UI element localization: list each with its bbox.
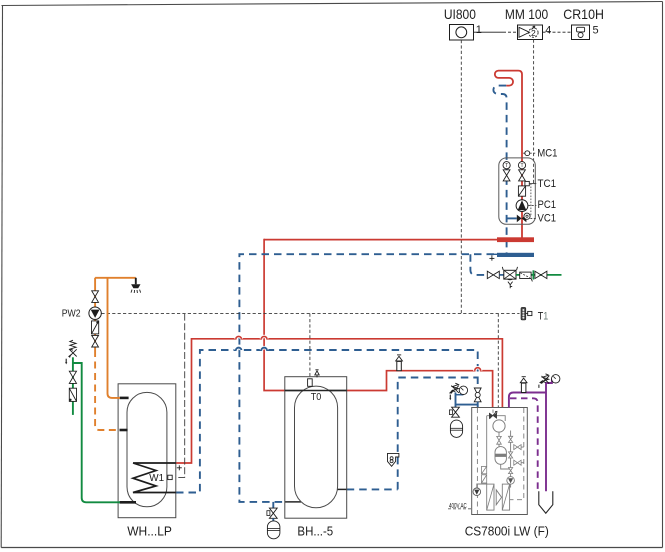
wire red buffer tank to heat pump inlet — [347, 368, 493, 408]
heat exchanger coil W — [133, 463, 176, 493]
sensor TC1 — [525, 181, 536, 185]
wire circulation riser solid part — [94, 278, 96, 350]
shutoff valve on heat pump return — [474, 388, 481, 402]
wire green fill pipe — [516, 274, 562, 276]
backflow preventer box — [502, 267, 517, 288]
evaporator fan pump — [473, 488, 481, 496]
svg-text:UI800: UI800 — [444, 6, 476, 22]
pump PC1 — [516, 200, 536, 212]
union fitting — [532, 270, 534, 279]
internal valve middle — [509, 452, 513, 458]
strainer — [520, 272, 533, 281]
filter dryer upper — [482, 466, 487, 473]
wire DHW outlet pipe orange — [108, 278, 121, 398]
internal tap right lower — [514, 460, 521, 465]
wire return stub to VC1 — [507, 217, 517, 219]
svg-text:WH...LP: WH...LP — [127, 523, 172, 538]
controller U1 UI800 box — [450, 25, 474, 41]
shutoff valve cold water — [69, 371, 76, 383]
heat exchanger plate left — [487, 484, 494, 510]
wire cold water mains riser — [72, 357, 74, 415]
check valve cold water — [69, 388, 76, 401]
internal valve lower — [509, 468, 513, 474]
shutoff valve above PW2 — [92, 291, 99, 303]
cap valve above expansion vessel — [449, 407, 459, 417]
svg-text:MC1: MC1 — [537, 147, 557, 159]
shutoff valve fill right — [535, 271, 547, 278]
safety valve heat pump discharge — [539, 374, 549, 388]
tank top port line redraw — [285, 390, 347, 392]
expansion vessel buffer circuit — [267, 521, 280, 539]
page frame right edge — [662, 2, 664, 548]
svg-text:VC1: VC1 — [538, 213, 557, 225]
internal valve top — [509, 436, 513, 442]
wire blue return buffer to heat pump branch — [347, 378, 478, 490]
svg-text:CR10H: CR10H — [563, 6, 604, 22]
cap valve expansion vessel — [267, 508, 277, 521]
manifold supply bar — [497, 237, 534, 242]
wire control bus horizontal — [101, 313, 519, 315]
thermometer on return — [503, 162, 510, 170]
tank WH...LP vessel — [127, 392, 167, 506]
module U2 MM 100 box — [518, 25, 543, 40]
port nipple circulation — [120, 429, 128, 432]
svg-text:1: 1 — [476, 24, 482, 36]
internal circulation pump — [507, 477, 515, 485]
shutoff valve return strand — [503, 170, 510, 181]
svg-text:T0: T0 — [311, 392, 322, 403]
svg-text:PC1: PC1 — [538, 199, 557, 211]
expansion vessel at heat pump — [450, 420, 462, 437]
heat pump CS7800i housing — [472, 408, 528, 515]
wire red DHW coil to heat pump line — [176, 336, 503, 463]
wire MM100 control line down — [531, 40, 534, 216]
wire buffer tank bottom port crossing — [285, 501, 301, 503]
refrigerant three-way valve — [489, 411, 497, 419]
port nipple DHW outlet — [120, 397, 129, 400]
svg-text:CS7800i LW (F): CS7800i LW (F) — [465, 523, 549, 538]
manifold return bar — [497, 253, 534, 257]
wire blue return manifold run to buffer bottom — [239, 254, 494, 502]
air vent on discharge line — [520, 377, 527, 393]
sensor T1 outdoor — [521, 307, 532, 320]
wire DHW distribution to shower — [95, 277, 136, 279]
svg-text:W1: W1 — [149, 473, 164, 484]
mixing module housing — [499, 158, 536, 224]
wire heating-circuit return (blue dashed hook) — [493, 86, 506, 254]
tank WH...LP casing — [118, 384, 176, 518]
thermostat U3 CR10H box — [572, 25, 590, 40]
sensor W1 — [168, 475, 172, 479]
heat pump internal boundary dashed — [477, 408, 523, 514]
wire circulation dashed to tank — [95, 350, 120, 430]
tank BH...-5 casing — [285, 377, 347, 519]
return bar connector stub with plus mark — [489, 254, 498, 260]
thermometer on supply — [518, 162, 525, 170]
wire blue solid manifold at heat pump — [456, 393, 478, 408]
compressor — [493, 420, 505, 432]
svg-text:BH...-5: BH...-5 — [297, 523, 333, 538]
wire cold water branch to tank — [73, 363, 120, 502]
plus mark at coil supply — [177, 465, 182, 470]
air vent on heat pump supply line — [396, 355, 403, 371]
svg-text:T1: T1 — [538, 310, 549, 322]
svg-text:TC1: TC1 — [538, 178, 557, 190]
pressure gauge discharge — [552, 375, 560, 383]
wire stub to separator — [499, 274, 504, 276]
air vent on buffer tank — [315, 370, 319, 378]
wire supply feed to manifold — [264, 239, 498, 241]
page frame bottom edge — [1, 547, 662, 549]
valve VC1 three-way mixer — [517, 213, 537, 222]
svg-text:5: 5 — [593, 24, 599, 36]
wire red supply from manifold down to buffer tank — [264, 239, 285, 391]
tank BH...-5 vessel — [295, 386, 338, 508]
pump PW2 — [89, 307, 101, 319]
safety valve cold water — [65, 340, 77, 364]
shutoff valve fill left — [487, 271, 499, 278]
drain funnel — [539, 491, 553, 513]
svg-text:T: T — [505, 163, 508, 169]
port nipple cold water — [120, 501, 137, 504]
wire blue return WH coil to heat pump — [176, 348, 478, 493]
wire buffer tank right port crossing — [337, 488, 347, 490]
wire safety drain dashed purple — [510, 398, 538, 491]
safety valve on heat pump circuit — [449, 383, 459, 400]
wire expansion vessel stub — [272, 502, 274, 508]
shower tap — [131, 278, 141, 293]
crossing bumps — [236, 336, 481, 370]
balancing valve — [518, 186, 525, 196]
wire buffer tank top port crossing — [285, 390, 347, 392]
shutoff valve supply strand — [519, 170, 526, 181]
internal tap right upper — [514, 445, 521, 450]
wire control branch to sensor T0 — [309, 314, 311, 379]
wire MM100 to CR10H — [543, 31, 572, 33]
label 400V AC — [448, 501, 472, 510]
page frame top edge — [2, 2, 663, 6]
wire UI800 control line down — [460, 40, 462, 314]
wire UI800 to MM100 — [474, 31, 518, 33]
wire heating-circuit supply (red loop) — [495, 71, 522, 238]
sensor T0 pocket — [308, 379, 313, 387]
svg-text:T: T — [520, 163, 523, 169]
filter dryer lower — [482, 475, 487, 483]
pressure gauge on heat pump circuit — [456, 386, 468, 395]
page frame left edge — [1, 6, 2, 548]
refrigerant receiver vessel — [495, 447, 506, 465]
sensor MC1 symbol — [523, 151, 536, 156]
heat pump internal piping — [477, 410, 524, 489]
heat exchanger plate right — [502, 484, 509, 510]
shutoff valve below check valve — [92, 335, 99, 347]
svg-text:4: 4 — [545, 24, 551, 36]
drain tag on buffer return line — [388, 453, 399, 466]
wire control branch to sensor W1 — [172, 314, 185, 478]
svg-text:MM 100: MM 100 — [505, 6, 548, 22]
wire fill branch from return run — [470, 254, 487, 275]
svg-text:PW2: PW2 — [62, 308, 81, 319]
check valve below PW2 — [92, 321, 99, 334]
fan symbol — [496, 490, 501, 505]
expansion valve — [497, 436, 502, 444]
wire control branch to heat pump — [497, 314, 499, 419]
wire safety discharge purple solid — [509, 379, 552, 495]
